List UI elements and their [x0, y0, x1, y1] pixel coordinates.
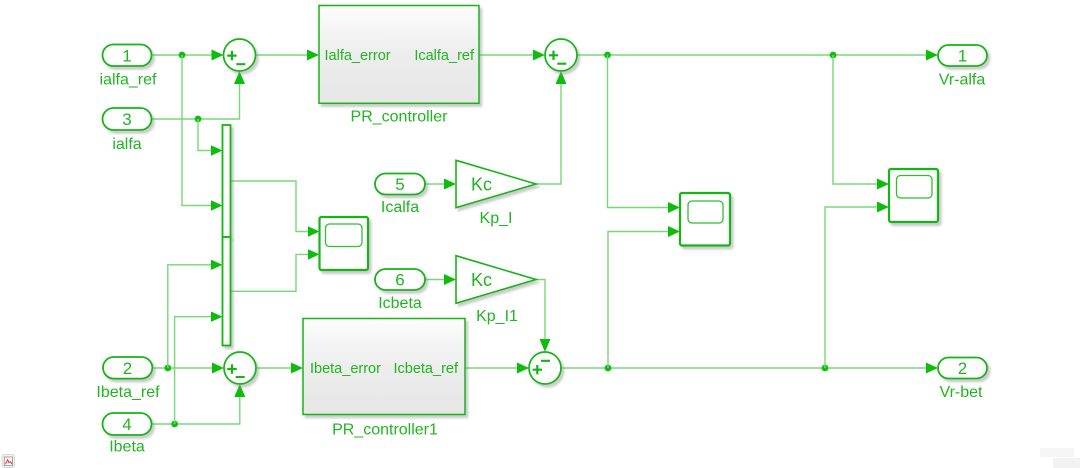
inport 6 [375, 269, 425, 290]
inport 5 [375, 174, 425, 195]
arrowhead into sum3 left [212, 363, 224, 374]
junction node on port4 wire [171, 421, 178, 428]
wire port6 to gain Kp_I1 [425, 279, 446, 281]
svg-text:Icalfa: Icalfa [381, 199, 419, 216]
svg-text:Ialfa_error: Ialfa_error [325, 48, 391, 64]
wire node C to scope2 input2 [608, 232, 670, 369]
junction node C on bottom wire [605, 365, 612, 372]
wire node B to scope3 input1 [833, 55, 879, 184]
scope block scope2 [680, 193, 730, 246]
arrowhead into scope3 input2 [877, 202, 889, 213]
wire PR_controller to sum2 [479, 54, 536, 56]
scope3 screen [897, 176, 933, 199]
arrowhead into scope3 input1 [877, 179, 889, 190]
svg-text:5: 5 [395, 175, 404, 194]
subsystem PR_controller [319, 6, 479, 104]
junction node on port2 wire [164, 365, 171, 372]
scope block scope3 [889, 169, 938, 222]
mux block M1 [223, 125, 231, 237]
arrowhead into sum4 left [517, 363, 529, 374]
svg-text:Ibeta: Ibeta [109, 438, 145, 455]
svg-text:Icbeta: Icbeta [378, 295, 422, 312]
inport 2 [103, 357, 152, 379]
inport 4 [103, 413, 152, 435]
arrowhead into scope2 input2 [668, 226, 680, 237]
arrowhead up into sum3 bottom [234, 384, 245, 397]
mux block M2 [223, 237, 231, 346]
wire port3 to sum1 bottom [152, 84, 240, 119]
scope2 screen [688, 201, 723, 223]
sum S3 minus sign [236, 376, 245, 378]
arrowhead into gain Kp_I1 [444, 274, 456, 285]
svg-text:Vr-bet: Vr-bet [940, 384, 984, 401]
junction node A on top wire [604, 52, 611, 59]
wire port5 to gain Kp_I [425, 183, 446, 185]
faint watermark bottom-right [1040, 448, 1080, 468]
sum block S4 [529, 352, 561, 384]
svg-text:Kp_I1: Kp_I1 [476, 308, 518, 325]
gain block Kp_I1 [456, 256, 536, 304]
sum block S2 [545, 39, 577, 71]
sum S1 plus sign [227, 51, 236, 60]
wire port1 to sum1 [152, 54, 215, 56]
wire node D to scope3 input2 [825, 207, 879, 368]
wire port1 branch to mux1 input2 [182, 55, 212, 206]
wire sum4 to outport Vr-bet [561, 367, 929, 369]
arrowhead into sum1 left [212, 50, 224, 61]
sum block S3 [224, 352, 256, 384]
outport 1 [938, 45, 987, 66]
svg-text:PR_controller1: PR_controller1 [332, 422, 438, 439]
svg-text:Kp_I: Kp_I [480, 210, 513, 227]
wire port4 to sum3 bottom [152, 397, 240, 424]
sum S4 plus sign [533, 365, 542, 374]
svg-text:1: 1 [122, 46, 131, 65]
svg-text:1: 1 [958, 47, 967, 66]
junction node on port1 wire [179, 52, 186, 59]
svg-text:Kc: Kc [471, 175, 492, 195]
svg-text:6: 6 [395, 271, 404, 290]
wire PR_controller1 to sum4 [465, 367, 520, 369]
svg-text:3: 3 [122, 110, 131, 129]
sum S1 minus sign [236, 63, 245, 65]
arrowhead into outport Vr-bet [926, 363, 938, 374]
wire mux2 output to scope1 input2 [231, 254, 311, 291]
svg-text:2: 2 [958, 359, 967, 378]
svg-text:2: 2 [123, 359, 132, 378]
arrowhead down into sum4 top [540, 339, 551, 352]
arrowhead into PR_controller input [307, 50, 319, 61]
svg-text:Ibeta_error: Ibeta_error [310, 361, 381, 377]
sum block S1 [224, 39, 256, 71]
svg-text:Icalfa_ref: Icalfa_ref [414, 48, 475, 64]
junction node B on top wire [830, 52, 837, 59]
arrowhead into PR_controller1 input [291, 363, 303, 374]
arrowhead up into sum1 bottom [234, 71, 245, 84]
wire port3 branch to mux1 input1 [198, 119, 212, 151]
arrowhead into mux2 input1 [211, 260, 223, 270]
arrowhead into gain Kp_I [444, 179, 456, 190]
arrowhead into scope1 input1 [308, 226, 320, 236]
arrowhead into outport Vr-alfa [926, 50, 938, 61]
svg-text:Vr-alfa: Vr-alfa [939, 72, 986, 89]
svg-text:4: 4 [122, 415, 131, 434]
wire port4 branch to mux2 input2 [175, 317, 212, 424]
scope block S_mid (scope1) [320, 217, 369, 270]
arrowhead into mux2 input2 [211, 312, 223, 322]
arrowhead up into sum2 bottom [556, 71, 567, 84]
sum S3 plus sign [227, 364, 236, 373]
desktop shortcut icon bottom-left [2, 455, 15, 468]
subsystem PR_controller1 [303, 319, 465, 415]
arrowhead into mux1 input2 [211, 200, 223, 210]
wire sum1 to PR_controller [256, 54, 310, 56]
svg-text:Icbeta_ref: Icbeta_ref [394, 361, 459, 377]
svg-text:ialfa_ref: ialfa_ref [100, 72, 157, 89]
junction node on port3 wire [195, 116, 202, 123]
wire gain Kp_I1 to sum4 top [536, 280, 545, 341]
svg-text:ialfa: ialfa [112, 136, 141, 153]
arrowhead into scope2 input1 [668, 202, 680, 213]
scope1 screen [326, 224, 363, 247]
arrowhead into scope1 input2 [308, 249, 320, 259]
wire port2 branch to mux2 input1 [168, 265, 212, 368]
wire node A to scope2 input1 [608, 55, 671, 208]
inport 3 [103, 108, 152, 130]
arrowhead into sum2 left [533, 50, 545, 61]
svg-text:PR_controller: PR_controller [351, 109, 449, 126]
arrowhead into mux1 input1 [211, 145, 223, 155]
wire gain Kp_I to sum2 bottom [536, 84, 561, 184]
sum S2 plus sign [549, 51, 558, 60]
wire sum3 to PR_controller1 [256, 367, 294, 369]
wire sum2 to outport Vr-alfa [577, 54, 929, 56]
wire port2 to sum3 [152, 367, 215, 369]
sum S4 minus sign [541, 360, 550, 362]
sum S2 minus sign [557, 63, 566, 65]
inport 1 [103, 45, 152, 67]
outport 2 [938, 358, 987, 379]
svg-text:Kc: Kc [471, 270, 492, 290]
wire mux1 output to scope1 input1 [231, 181, 311, 232]
svg-text:Ibeta_ref: Ibeta_ref [96, 384, 160, 401]
gain block Kp_I [456, 160, 536, 207]
junction node D on bottom wire [822, 365, 829, 372]
